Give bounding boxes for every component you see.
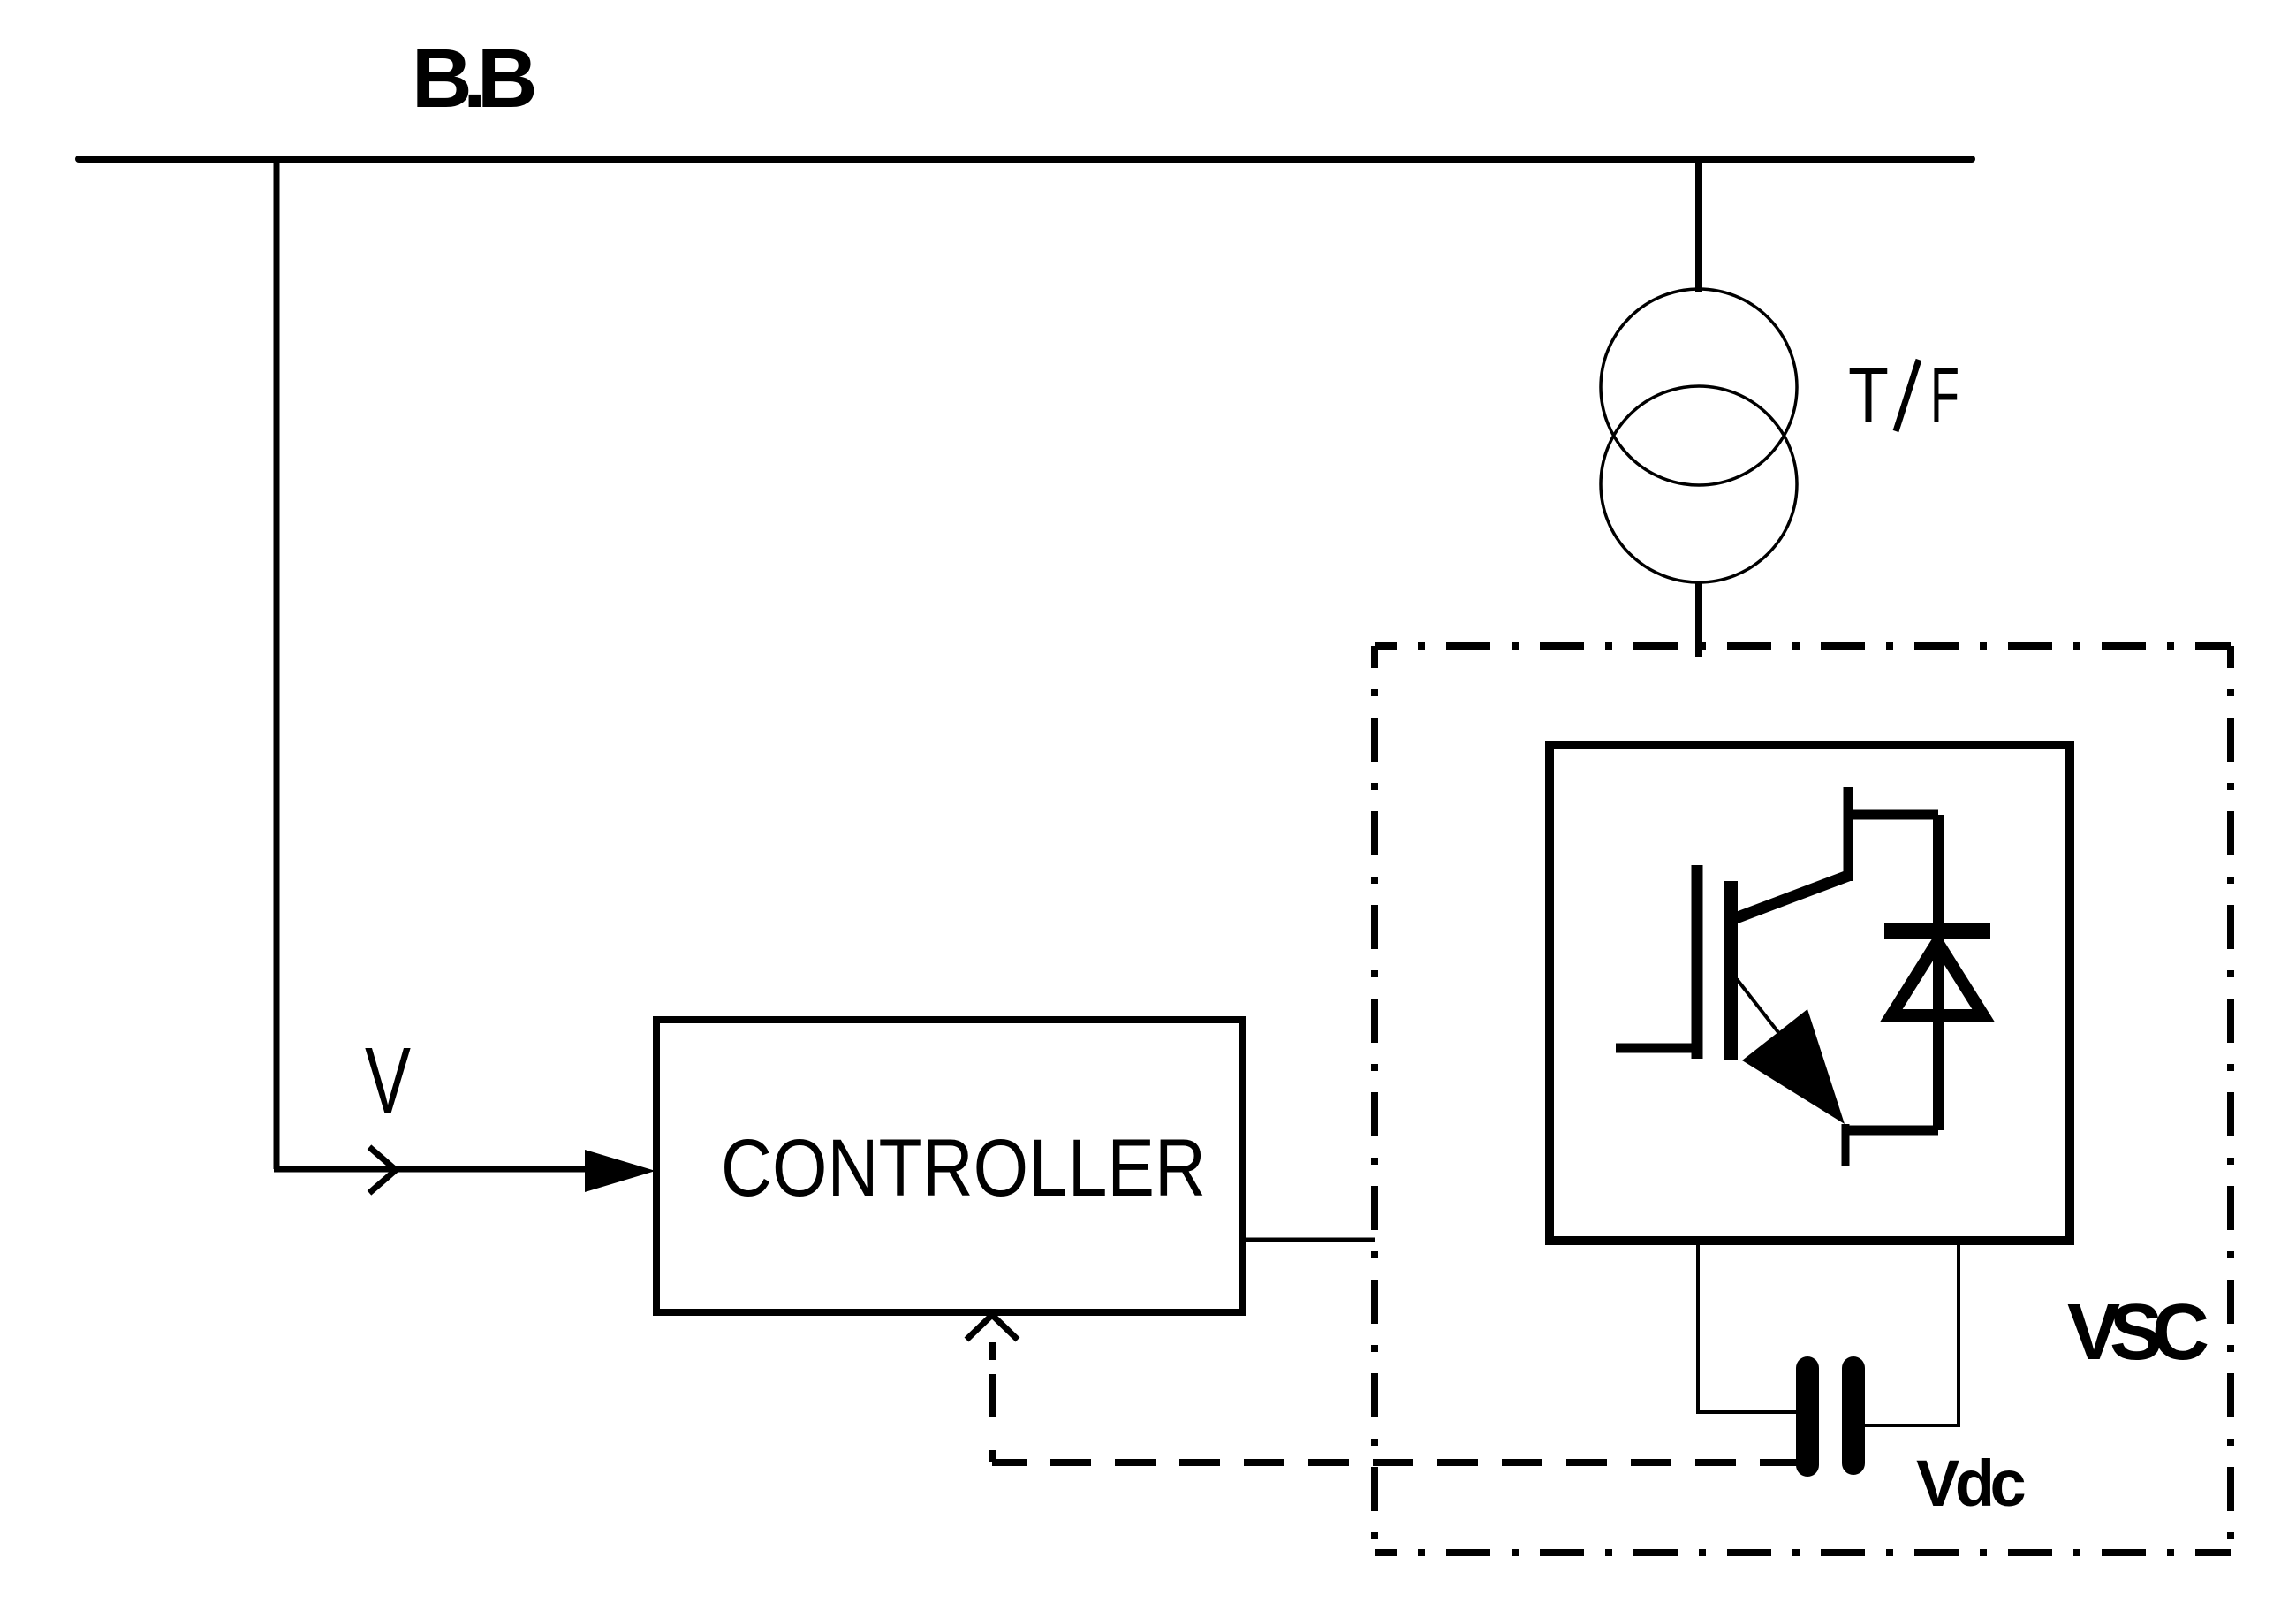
converter block box bbox=[1550, 745, 2070, 1241]
diode cathode-anode lead bbox=[1933, 815, 1944, 1130]
svg-text:V: V bbox=[365, 1029, 411, 1133]
diode triangle bbox=[1891, 942, 1983, 1015]
svg-text:B.B: B.B bbox=[412, 32, 534, 125]
wire: emitter to diode anode bbox=[1845, 1126, 1938, 1136]
diode cathode bar bbox=[1884, 923, 1990, 939]
capacitor C1 plate left bbox=[1796, 1368, 1819, 1465]
wire: converter DC+ down bbox=[1698, 1241, 1797, 1412]
IGBT emitter arrowhead bbox=[1742, 1009, 1845, 1124]
VSC boundary dash-dot box bottom edge bbox=[1375, 1549, 2231, 1556]
svg-text:T: T bbox=[1848, 351, 1889, 438]
svg-text:VSC: VSC bbox=[2067, 1288, 2208, 1377]
IGBT emitter line bbox=[1737, 979, 1793, 1052]
feedback arrowhead into controller bbox=[966, 1315, 1018, 1340]
wire: transformer secondary to VSC bbox=[1695, 582, 1702, 657]
wire: controller output to VSC box bbox=[1242, 1238, 1375, 1242]
IGBT collector diagonal bbox=[1733, 876, 1848, 919]
dashed Vdc feedback wire vertical bbox=[989, 1342, 996, 1462]
transformer T/F primary winding bbox=[1601, 289, 1797, 485]
svg-text:CONTROLLER: CONTROLLER bbox=[721, 1123, 1206, 1213]
IGBT emitter lead stub bbox=[1842, 1124, 1850, 1166]
busbar B.B bbox=[79, 156, 1972, 163]
VSC boundary dash-dot box right edge bbox=[2227, 646, 2234, 1553]
IGBT collector lead bbox=[1844, 787, 1853, 881]
node V chevron on wire bbox=[369, 1147, 396, 1193]
IGBT gate bar bbox=[1692, 865, 1703, 1059]
VSC boundary dash-dot box top edge bbox=[1375, 642, 2231, 650]
wire: horizontal into controller bbox=[274, 1166, 601, 1173]
wire: collector to diode cathode bbox=[1848, 810, 1938, 820]
wire: busbar to transformer primary bbox=[1695, 159, 1702, 292]
controller box U1 bbox=[656, 1020, 1242, 1312]
svg-text:F: F bbox=[1930, 351, 1959, 438]
svg-text:Vdc: Vdc bbox=[1916, 1447, 2025, 1520]
wire: converter DC- down bbox=[1864, 1241, 1959, 1425]
IGBT Q1 bbox=[1616, 787, 1938, 1166]
VSC boundary dash-dot box left edge bbox=[1371, 646, 1378, 1553]
wire: busbar tap down left side bbox=[274, 159, 280, 1169]
arrowhead into controller bbox=[585, 1150, 655, 1192]
transformer T/F secondary winding bbox=[1601, 386, 1797, 582]
IGBT gate lead bbox=[1616, 1044, 1701, 1053]
capacitor C1 plate right bbox=[1842, 1368, 1865, 1463]
diode D1 bbox=[1884, 815, 1990, 1130]
dashed Vdc feedback wire horizontal bbox=[992, 1459, 1797, 1466]
IGBT channel bar bbox=[1724, 881, 1738, 1060]
